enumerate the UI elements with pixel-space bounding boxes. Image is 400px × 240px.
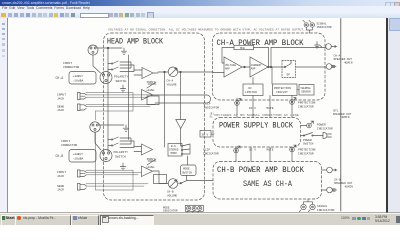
box DC LIMITER	[243, 84, 263, 96]
toolbar	[0, 11, 400, 19]
label POLARITY SWITCH (CH-A)	[114, 76, 129, 83]
switch S2 mode switch stack B-S/STEREO/MONO	[168, 144, 190, 157]
connector J1B CH-B input XLR (panel view)	[90, 122, 100, 132]
svg-text:DC V: DC V	[249, 149, 256, 152]
ground GND1	[121, 48, 126, 54]
svg-text:CIRCUIT: CIRCUIT	[276, 91, 288, 94]
title bar	[0, 0, 400, 6]
connector J4A send jack	[78, 104, 87, 111]
svg-text:PROTECTION: PROTECTION	[274, 87, 291, 90]
label CH-A SPEAKER OUT 4 OHM MIN	[334, 54, 353, 64]
svg-text:CH-B: CH-B	[56, 154, 64, 158]
label HEAD AMP BLOCK	[107, 37, 164, 47]
indicator SIGNAL INDICATION (bottom lamps)	[299, 199, 315, 211]
svg-text:AMP: AMP	[225, 67, 230, 70]
tray	[341, 216, 350, 220]
label PROTECTION INDICATOR (CH-B)	[298, 149, 316, 156]
svg-text:SENSOR: SENSOR	[301, 90, 311, 93]
svg-text:SWITCH: SWITCH	[303, 143, 314, 146]
LED D2 protection indicator (CH-A)	[290, 98, 296, 105]
wire A1 to A2	[242, 66, 250, 68]
wire relay to CH-A speaker output	[271, 48, 326, 68]
box MFB feedback	[234, 45, 254, 50]
indicator SIGNAL INDICATOR (top right lamps)	[303, 20, 314, 33]
terminal CH-B speaker out +	[327, 167, 337, 173]
label CH-B SPEAKER OUT 4 OHM MIN	[334, 178, 353, 188]
svg-text:INPUT: INPUT	[57, 94, 66, 97]
op-amp A1 voltage amp	[224, 57, 242, 77]
svg-text:SIGNAL: SIGNAL	[317, 205, 328, 208]
svg-text:JACK: JACK	[57, 97, 64, 100]
pot INPUT LEVEL (CH-A trim)	[147, 81, 157, 92]
svg-text:LEVEL: LEVEL	[147, 166, 156, 169]
box THERMAL SENSOR	[299, 85, 314, 96]
wire J1A to ground	[98, 47, 122, 49]
svg-text:INPUT: INPUT	[61, 140, 70, 143]
pot INPUT LEVEL (CH-B trim)	[147, 158, 157, 169]
connector J3B input jack	[78, 170, 87, 177]
svg-text:SEND: SEND	[57, 185, 64, 188]
svg-text:CLIP: CLIP	[204, 103, 211, 106]
block CH-B POWER AMP BLOCK (dashed outline)	[213, 162, 322, 200]
label CLIP INDICATOR (CH-B)	[203, 149, 219, 156]
op-amp U2A	[142, 90, 153, 101]
block HEAD AMP BLOCK (dashed outline)	[104, 33, 205, 200]
label SIGNAL INDICATION (bottom)	[317, 205, 335, 212]
ground GND4	[120, 163, 125, 170]
svg-text:MONO: MONO	[171, 152, 178, 155]
op-amp U5 bridge inverter (points down)	[176, 120, 186, 129]
svg-text:THERMAL: THERMAL	[300, 87, 311, 90]
start button	[1, 215, 16, 226]
LED D3 clip indicator (CH-B)	[234, 146, 240, 153]
svg-text:INDICATOR: INDICATOR	[317, 26, 332, 29]
label CH-B POWER AMP BLOCK	[217, 165, 305, 175]
op-amp U2B	[142, 166, 153, 177]
pot R-VOL CH-B VOLUME	[168, 179, 178, 189]
svg-text:VOLTAGES AT NO SIGNAL CONDITIO: VOLTAGES AT NO SIGNAL CONDITION. ALL DC …	[108, 29, 305, 32]
pot R-VOL CH-A VOLUME	[168, 67, 178, 77]
window buttons	[385, 2, 391, 7]
svg-text:POLARITY: POLARITY	[114, 151, 129, 154]
label loop note	[210, 113, 215, 119]
svg-text:SIGNAL: SIGNAL	[317, 23, 327, 26]
label SAME AS CH-A	[243, 180, 292, 189]
svg-text:JACK: JACK	[57, 175, 64, 178]
svg-text:CH-A: CH-A	[167, 80, 174, 83]
svg-text:MUTE: MUTE	[267, 107, 274, 110]
svg-text:SWITCH: SWITCH	[182, 172, 192, 175]
svg-text:VOLUME: VOLUME	[167, 194, 177, 197]
box PROTECTION CIRCUIT	[273, 84, 298, 96]
label INPUT JACK (CH-B)	[57, 171, 66, 178]
svg-text:POWER: POWER	[317, 124, 326, 127]
label SEND JACK (CH-B)	[57, 185, 64, 192]
task button 1	[15, 215, 71, 226]
document page	[8, 18, 386, 213]
wire output node and feedback taps	[268, 48, 282, 68]
svg-text:LIMITER: LIMITER	[245, 91, 257, 94]
switch S3 CH-B output select	[178, 180, 188, 184]
svg-text:MFB: MFB	[240, 47, 245, 50]
svg-text:HEAD AMP BLOCK: HEAD AMP BLOCK	[107, 37, 164, 47]
wire junction drops to lower section	[165, 72, 181, 147]
label CH-A	[56, 76, 64, 80]
label DC V rail	[249, 107, 256, 110]
svg-text:INPUT: INPUT	[147, 158, 156, 161]
wire feedback loop U2A	[147, 96, 159, 105]
svg-text:INPUT: INPUT	[147, 81, 156, 84]
wire J1B down to J2B	[95, 132, 101, 150]
label SIGNAL INDICATOR (top)	[317, 23, 332, 30]
wire send/return loop to head amp edge	[152, 95, 211, 103]
svg-text:INDICATION: INDICATION	[317, 209, 335, 212]
svg-text:-10dBA: -10dBA	[73, 79, 84, 83]
switch S4 power switch	[301, 133, 324, 137]
svg-text:4ΩMIN: 4ΩMIN	[345, 185, 354, 188]
label CLIP INDICATOR (CH-A)	[204, 103, 220, 110]
label MUTE line	[267, 107, 274, 110]
label POWER SWITCH	[303, 139, 314, 146]
svg-text:INPUT: INPUT	[63, 62, 72, 65]
terminal CH-A speaker out +	[326, 44, 337, 50]
terminal CH-B speaker out -	[327, 187, 337, 193]
label MUTE line (CH-B)	[267, 149, 274, 152]
connector J3A input jack	[78, 93, 87, 100]
svg-text:JACK: JACK	[57, 189, 64, 192]
box 30V supply tap to head amp	[200, 131, 214, 138]
wire CH-B signal to CH-B power amp block	[188, 179, 213, 181]
svg-text:CH-B POWER AMP BLOCK: CH-B POWER AMP BLOCK	[217, 165, 305, 175]
wire feedback loop U2B	[154, 175, 167, 184]
box MODE SWITCH label	[181, 165, 197, 176]
svg-text:LEVEL: LEVEL	[147, 89, 156, 92]
box sensitivity +4dBV/-10dBA (CH-A)	[69, 72, 96, 85]
terminal CH-A speaker out -	[326, 64, 336, 70]
wire J1B to ground	[100, 124, 124, 126]
svg-text:VOLTAGES AT NO SIGNAL CONDITIO: VOLTAGES AT NO SIGNAL CONDITION AC LINE	[214, 114, 300, 117]
label POWER INDICATOR	[317, 124, 333, 131]
LED D5 power indicator	[301, 121, 314, 128]
svg-text:PROTECTION: PROTECTION	[298, 149, 316, 152]
svg-text:SP: SP	[287, 74, 291, 77]
ground GND5 at output	[315, 42, 323, 49]
svg-text:+4dBV/: +4dBV/	[73, 74, 84, 78]
label POLARITY SWITCH (CH-B)	[114, 151, 129, 158]
block POWER SUPPLY BLOCK (dashed outline)	[213, 118, 301, 148]
label INPUT CONNECTOR (CH-B)	[61, 140, 77, 147]
label PROTECTION INDICATOR (CH-A)	[298, 102, 316, 109]
taskbar	[0, 213, 400, 226]
switch S1A polarity switch contacts	[108, 55, 134, 140]
connector AC plug	[323, 133, 332, 139]
svg-text:CH-B: CH-B	[334, 178, 341, 181]
connector J2B XLR with pins	[100, 150, 112, 162]
svg-text:POWER SUPPLY BLOCK: POWER SUPPLY BLOCK	[219, 120, 294, 130]
label DC V line (CH-B)	[249, 149, 256, 152]
svg-text:MODE: MODE	[183, 168, 190, 171]
svg-text:INDICATOR: INDICATOR	[317, 127, 333, 130]
svg-text:+4dBV/: +4dBV/	[73, 152, 84, 156]
zoom input box	[80, 13, 109, 19]
svg-text:4ΩMIN: 4ΩMIN	[341, 116, 350, 119]
op-amp A2 current amp	[250, 57, 268, 77]
ground GND2	[120, 85, 125, 92]
block CH-A POWER AMP BLOCK (dashed outline)	[213, 33, 326, 100]
menu bar	[0, 6, 400, 11]
svg-text:3Ω: 3Ω	[210, 116, 213, 119]
svg-text:CONNECTOR: CONNECTOR	[61, 144, 77, 147]
svg-text:CH-A: CH-A	[56, 76, 64, 80]
svg-text:30 V: 30 V	[202, 134, 209, 137]
wire MFB feedback line	[222, 48, 269, 64]
wire send jack A lines	[86, 93, 155, 120]
svg-text:DC: DC	[249, 87, 253, 90]
svg-text:CH-A: CH-A	[334, 54, 341, 57]
relay RY1 speaker relay SP	[282, 61, 296, 78]
svg-text:POLARITY: POLARITY	[114, 76, 129, 79]
wire mode switch common down	[187, 156, 188, 180]
label CH-B	[56, 154, 64, 158]
svg-text:-10dBA: -10dBA	[73, 157, 84, 161]
LED D1 clip indicator (CH-A)	[235, 99, 241, 106]
svg-text:JACK: JACK	[57, 109, 64, 112]
right scrollbar	[386, 18, 388, 213]
svg-text:PROTECTION: PROTECTION	[298, 102, 316, 105]
svg-text:CH-A POWER AMP BLOCK: CH-A POWER AMP BLOCK	[217, 38, 305, 48]
note text row top	[108, 29, 305, 32]
wire input jack B lines	[86, 170, 141, 175]
svg-text:CLIP: CLIP	[203, 149, 210, 152]
svg-text:SWITCH: SWITCH	[116, 80, 127, 83]
task button 2	[71, 215, 99, 226]
box sensitivity +4dBV/-10dBA (CH-B)	[69, 150, 96, 163]
wire signal into A1	[213, 72, 224, 74]
label POWER SUPPLY BLOCK	[219, 120, 294, 130]
wire limiter/protection verticals	[237, 67, 299, 118]
LED D4 protection indicator (CH-B)	[290, 145, 296, 152]
wire CH-B block to speaker terminals	[322, 170, 327, 190]
label CH-B VOLUME	[167, 191, 177, 198]
svg-text:SWITCH: SWITCH	[115, 155, 126, 158]
switch S1B polarity switch contacts	[108, 137, 134, 148]
svg-text:CONNECTOR: CONNECTOR	[63, 66, 79, 69]
svg-text:INDICATOR: INDICATOR	[298, 105, 314, 108]
wire J1A down to J2A	[93, 55, 101, 73]
schematic sheet border (right crease line)	[340, 19, 342, 212]
task button 3 active	[100, 215, 154, 226]
connector J2A XLR with pins	[100, 72, 112, 84]
label CH-A VOLUME	[167, 80, 177, 87]
svg-text:CH-B: CH-B	[167, 191, 174, 194]
label SEND JACK (CH-A)	[57, 105, 64, 112]
wire input jack A lines	[86, 93, 152, 98]
svg-text:MUTE: MUTE	[267, 149, 274, 152]
op-amp U1B	[134, 144, 153, 155]
label INPUT JACK (CH-A)	[57, 94, 66, 101]
svg-text:SAME AS CH-A: SAME AS CH-A	[243, 180, 292, 189]
op-amp U1A	[134, 68, 158, 79]
wire PSB bottom row verticals	[236, 147, 292, 162]
connector J1A CH-A input XLR (panel view)	[88, 45, 98, 55]
wire inverter output down to mode switch	[180, 129, 182, 147]
note text row above power supply block	[214, 114, 300, 117]
svg-text:INPUT: INPUT	[57, 171, 66, 174]
svg-text:4ΩMIN: 4ΩMIN	[344, 61, 353, 64]
svg-text:INDICATOR: INDICATOR	[298, 152, 314, 155]
wire send jack B lines	[86, 132, 148, 190]
wire U1A out to volume pot to CH-A power amp	[158, 71, 213, 73]
connector J4B send jack	[78, 184, 87, 191]
label INPUT CONNECTOR (CH-A)	[63, 62, 79, 69]
svg-text:AMP: AMP	[251, 67, 256, 70]
svg-text:DC V: DC V	[249, 107, 256, 110]
svg-text:VOLUME: VOLUME	[167, 83, 177, 86]
ground GND3	[123, 125, 128, 131]
svg-text:INDICATOR: INDICATOR	[203, 152, 219, 155]
label CH-A POWER AMP BLOCK	[217, 38, 305, 48]
indicator MODE INDICATOR lamps	[163, 205, 203, 213]
svg-text:POWER: POWER	[303, 139, 312, 142]
left sidebar	[0, 18, 8, 213]
wire U2B out to volume pot	[153, 171, 168, 184]
svg-text:INDICATOR: INDICATOR	[204, 106, 220, 109]
label BTL SPEAKER OUT 4 OHM MIN	[333, 109, 352, 119]
wire bus J1A to J2B	[107, 47, 109, 151]
svg-text:SEND: SEND	[57, 105, 64, 108]
